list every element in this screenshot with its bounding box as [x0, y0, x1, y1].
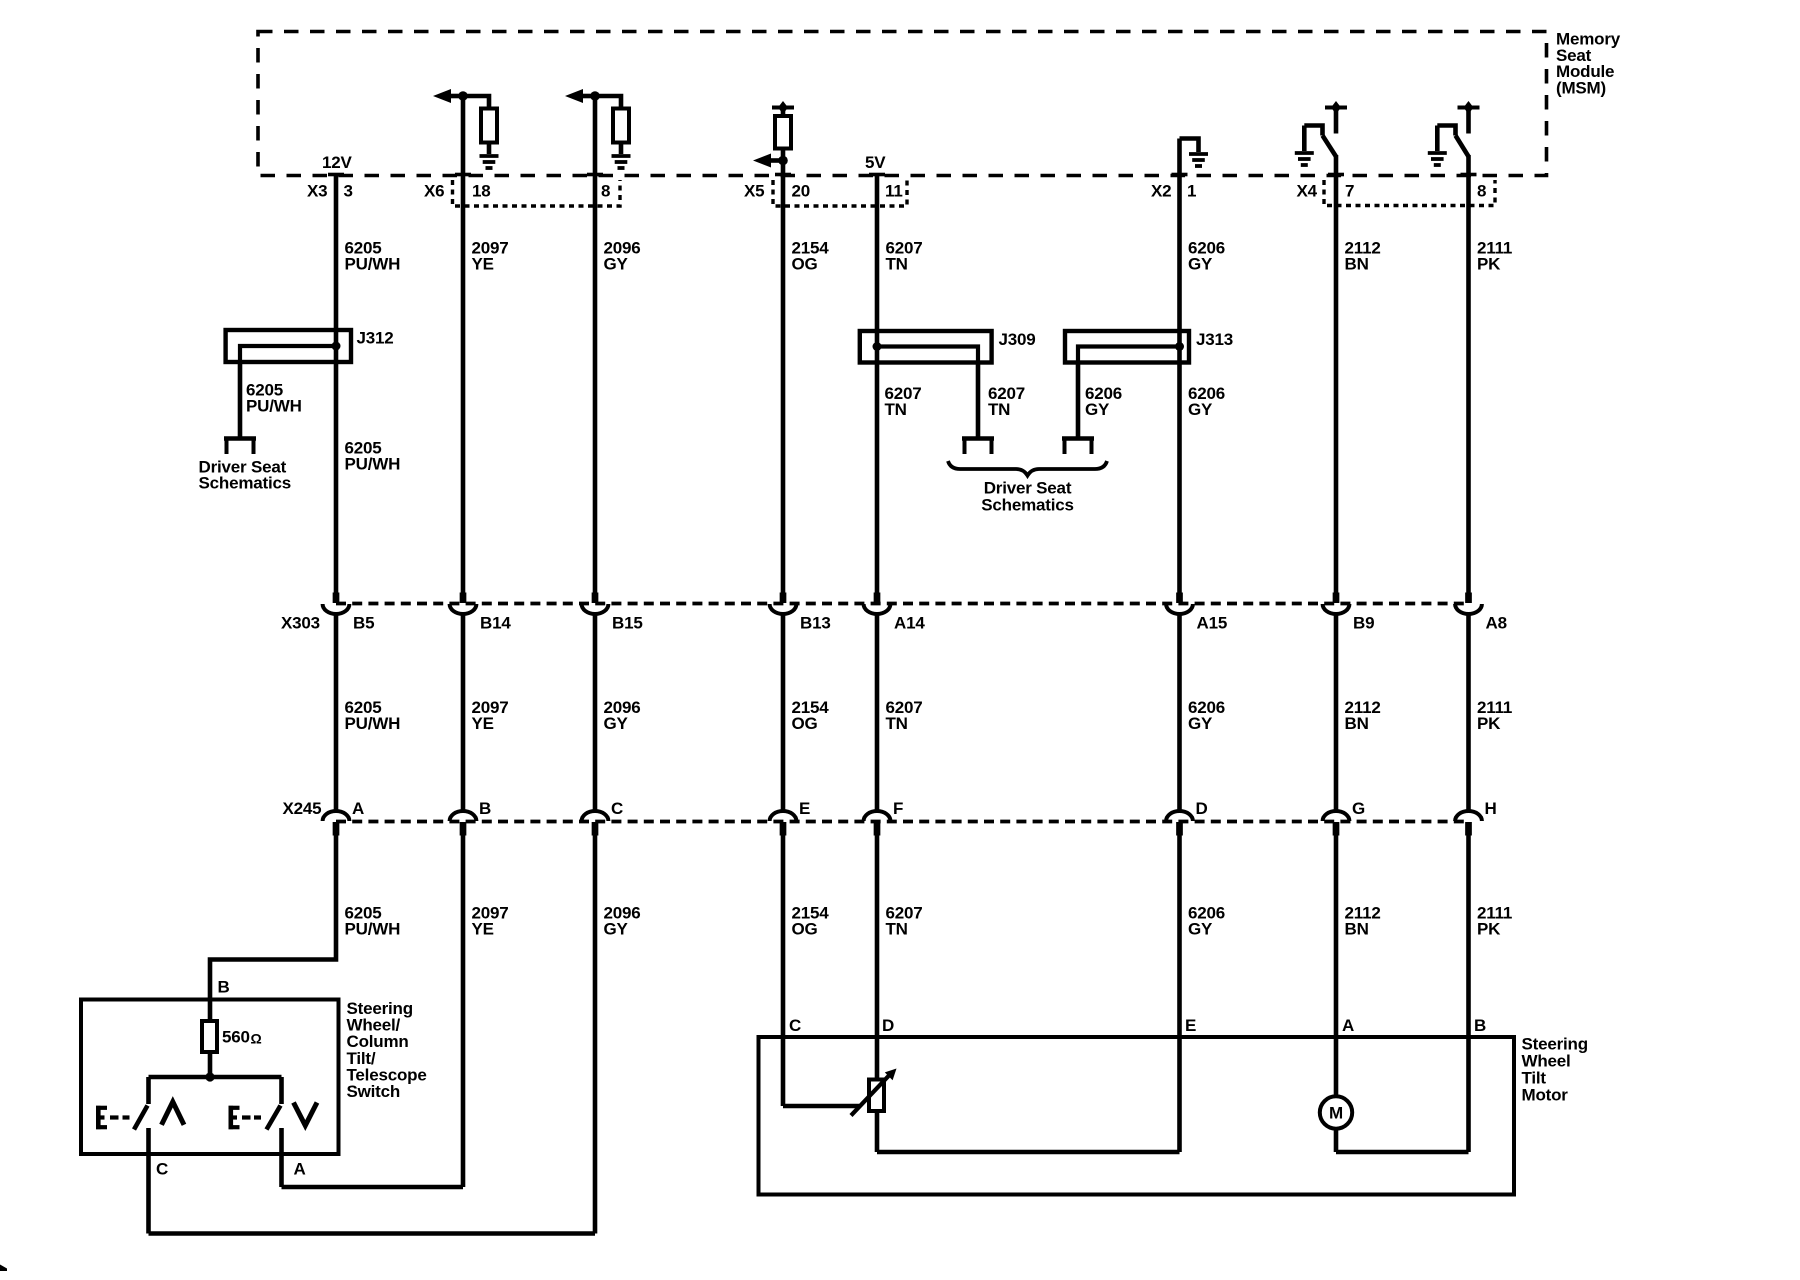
resistor internal (pin 20): [775, 116, 791, 149]
splice J309 internal link: [877, 347, 978, 363]
wire (down switch to pin A): [279, 1128, 284, 1187]
connector X303 terminal A14: [864, 593, 891, 615]
half connector to Driver Seat Schematics (J313): [1062, 439, 1094, 455]
connector X245 terminal C: [582, 811, 609, 836]
switch fixed contact (pin 8): [1437, 126, 1455, 136]
svg-text:E: E: [799, 799, 810, 818]
wire label 6205 PU/WH (branch): [246, 381, 302, 416]
wire 6207 TN (J309 to Driver Seat): [976, 363, 981, 439]
wire label 2154 OG (middle): [792, 698, 830, 733]
actuator E linkage (down switch): [229, 1106, 262, 1129]
connector label X4: [1297, 182, 1318, 201]
svg-text:E: E: [1185, 1016, 1196, 1035]
svg-text:B: B: [218, 978, 230, 997]
switch down-contact stub: [279, 1077, 284, 1104]
wire label 2096 GY (lower): [604, 904, 641, 939]
resistor 560 ohm: [202, 1021, 217, 1052]
pin A14 label: [894, 614, 925, 633]
wire label 2154 OG (lower): [792, 904, 830, 939]
wire 2111 PK (X245-H to motor pin B): [1466, 835, 1471, 1153]
mark (page artifact): [0, 1265, 7, 1272]
Steering Wheel/Column Tilt/Telescope Switch box outline: [81, 1000, 339, 1155]
pin A label (motor): [1342, 1016, 1354, 1035]
wire 6206 GY (X303 to X245): [1177, 616, 1182, 810]
svg-text:12V: 12V: [322, 153, 353, 172]
wire label 6207 TN (upper): [886, 239, 923, 274]
switch blade (pin 7): [1323, 136, 1337, 157]
svg-text:PU/WH: PU/WH: [345, 255, 401, 274]
pin G label: [1352, 799, 1365, 818]
connector label X245: [283, 799, 322, 818]
pin A label: [352, 799, 364, 818]
wire 6206 GY (J313 to Driver Seat): [1076, 363, 1081, 439]
svg-text:C: C: [611, 799, 623, 818]
wire label 2097 YE (upper): [472, 239, 509, 274]
wire label 6207 TN (branch): [988, 384, 1025, 419]
connector X245 terminal H: [1455, 811, 1482, 836]
splice J312 outline: [226, 330, 351, 362]
wire label 2097 YE (middle): [472, 698, 509, 733]
wire 2097 YE (X303 to X245): [461, 616, 466, 810]
svg-text:J313: J313: [1196, 330, 1233, 349]
svg-text:X303: X303: [281, 614, 320, 633]
half connector to Driver Seat Schematics (J312): [224, 439, 256, 455]
wire label 6207 TN (main): [885, 384, 922, 419]
label Driver Seat Schematics (left): [199, 458, 292, 493]
wire label 2111 PK (lower): [1477, 904, 1512, 939]
svg-text:D: D: [882, 1016, 894, 1035]
connector X6 pin box: [453, 180, 621, 206]
label Steering Wheel Tilt Motor: [1522, 1035, 1588, 1105]
wire label 2112 BN (middle): [1345, 698, 1381, 733]
svg-text:PK: PK: [1477, 255, 1501, 274]
svg-text:D: D: [1196, 799, 1208, 818]
down-direction chevron: [294, 1103, 318, 1126]
signal arrow (internal, pin 20): [753, 154, 783, 168]
svg-text:5V: 5V: [865, 153, 886, 172]
pin 20 label: [792, 182, 811, 201]
label Memory Seat Module (MSM): [1556, 30, 1621, 98]
svg-text:Switch: Switch: [347, 1082, 401, 1101]
wire 2111 PK (MSM pin X4-8 to X303): [1461, 155, 1477, 593]
wire 2096 GY (MSM pin X6-8 to X303): [587, 94, 603, 593]
svg-text:BN: BN: [1345, 920, 1369, 939]
splice J312 internal link: [240, 346, 336, 362]
connector X245 terminal B: [450, 811, 477, 836]
wire label 2112 BN (upper): [1345, 239, 1381, 274]
svg-text:GY: GY: [1188, 920, 1213, 939]
svg-text:B9: B9: [1353, 614, 1374, 633]
potentiometer wiper arrow: [851, 1069, 897, 1116]
wire (motor to bottom rail): [1334, 1129, 1339, 1152]
svg-text:A8: A8: [1486, 614, 1507, 633]
wire internal branch (pin 18): [463, 96, 489, 109]
motor M: [1320, 1096, 1352, 1128]
svg-text:11: 11: [885, 182, 903, 201]
svg-text:X245: X245: [283, 799, 322, 818]
switch blade (pin 8): [1456, 136, 1469, 157]
svg-text:BN: BN: [1345, 714, 1369, 733]
connector label X6: [424, 182, 444, 201]
connector X303 terminal B5: [323, 593, 350, 615]
connector label X303: [281, 614, 320, 633]
wire bottom rail (pot to pin E): [877, 1150, 1180, 1155]
connector X245 terminal D: [1166, 811, 1193, 836]
reference up arrow (pin 7): [1325, 101, 1347, 134]
svg-text:BN: BN: [1345, 255, 1369, 274]
connector X303 terminal B13: [770, 593, 797, 615]
wire wiper (pin C to potentiometer): [783, 1104, 859, 1109]
actuator E linkage (up switch): [96, 1106, 130, 1129]
connector X303 dashed line: [336, 602, 1469, 606]
svg-text:TN: TN: [886, 714, 908, 733]
ground (internal, pin 1): [1189, 154, 1208, 166]
ground (internal, switch pin 7): [1295, 126, 1314, 166]
pin B15 label: [612, 614, 643, 633]
wire 2097 YE (MSM pin X6-18 to X303): [455, 94, 471, 593]
Memory Seat Module (MSM) dashed outline: [258, 32, 1547, 176]
svg-text:A: A: [294, 1160, 306, 1179]
resistor internal pull-up (pin 8): [613, 109, 629, 143]
wire 2154 OG (X245-E to motor pin C): [781, 835, 786, 1107]
connector X5 pin box: [773, 180, 907, 206]
svg-text:PU/WH: PU/WH: [345, 714, 401, 733]
svg-text:H: H: [1485, 799, 1497, 818]
svg-text:OG: OG: [792, 920, 818, 939]
label 12V supply: [322, 153, 353, 172]
node junction J313: [1175, 342, 1184, 351]
ground (internal, pin 8): [612, 156, 631, 168]
resistor internal pull-up (pin 18): [481, 109, 497, 143]
wire (pot to bottom rail): [875, 1111, 880, 1152]
svg-text:X3: X3: [307, 182, 327, 201]
node junction (pin 8 net): [590, 91, 600, 101]
pin 8 label: [1477, 182, 1486, 201]
svg-text:GY: GY: [1085, 400, 1110, 419]
svg-text:X5: X5: [744, 182, 764, 201]
svg-text:(MSM): (MSM): [1556, 78, 1606, 97]
pin B label (motor): [1474, 1016, 1486, 1035]
svg-text:X2: X2: [1151, 182, 1171, 201]
wire 2096 GY (X303 to X245): [593, 616, 598, 810]
wire 2097 YE (X245-B down): [461, 835, 466, 1188]
wire 6206 GY (MSM pin X2-1 to X303): [1172, 139, 1188, 593]
reference up arrow (pin 8): [1458, 101, 1480, 134]
label 560 ohm: [222, 1028, 262, 1047]
pin C label (motor): [789, 1016, 801, 1035]
svg-text:PK: PK: [1477, 920, 1501, 939]
svg-text:PU/WH: PU/WH: [246, 397, 302, 416]
svg-text:TN: TN: [886, 920, 908, 939]
wire 6206 GY (X245-D to motor pin E): [1177, 835, 1182, 1153]
svg-text:C: C: [789, 1016, 801, 1035]
wire 2111 PK (X303 to X245): [1466, 616, 1471, 810]
svg-text:C: C: [156, 1160, 168, 1179]
wire (560 ohm to junction): [208, 1052, 213, 1077]
connector label X2: [1151, 182, 1171, 201]
svg-text:Schematics: Schematics: [981, 496, 1074, 515]
wire label 6206 GY (middle): [1188, 698, 1225, 733]
wire 6205 PU/WH (J312 to Driver Seat): [238, 362, 243, 439]
pin D label (motor): [882, 1016, 894, 1035]
wire (resistor to ground): [619, 143, 624, 155]
wire label 2097 YE (lower): [472, 904, 509, 939]
wire label 2111 PK (upper): [1477, 239, 1512, 274]
label Steering Wheel/Column Tilt/Telescope Switch: [347, 999, 427, 1101]
pin C label: [611, 799, 623, 818]
svg-text:PU/WH: PU/WH: [345, 455, 401, 474]
svg-text:X6: X6: [424, 182, 444, 201]
wire label 6207 TN (middle): [886, 698, 923, 733]
wire label 2112 BN (lower): [1345, 904, 1381, 939]
wire 2096 GY (X245-C down): [593, 835, 598, 1234]
pin 8 label: [601, 182, 610, 201]
svg-text:7: 7: [1345, 182, 1354, 201]
svg-text:YE: YE: [472, 255, 494, 274]
svg-text:1: 1: [1187, 182, 1196, 201]
pin 18 label: [472, 182, 491, 201]
pin B14 label: [480, 614, 511, 633]
svg-text:3: 3: [344, 182, 353, 201]
switch blade (up): [134, 1106, 148, 1130]
connector X303 terminal A15: [1166, 593, 1193, 615]
wire label 6205 PU/WH (main below J312): [345, 439, 401, 474]
svg-text:J309: J309: [999, 330, 1036, 349]
connector X303 terminal B9: [1323, 593, 1350, 615]
wire 6205 PU/WH (MSM pin X3-3 to X303): [328, 175, 344, 593]
wire (up switch to pin C): [146, 1128, 151, 1234]
pin 1 label: [1187, 182, 1196, 201]
svg-text:GY: GY: [604, 920, 629, 939]
wire internal hook (pin 1): [1180, 139, 1199, 153]
label Driver Seat Schematics (center): [981, 479, 1074, 515]
svg-text:G: G: [1352, 799, 1365, 818]
connector X245 terminal F: [864, 811, 891, 836]
svg-text:B5: B5: [353, 614, 374, 633]
svg-text:A: A: [352, 799, 364, 818]
switch fixed contact (pin 7): [1304, 126, 1322, 136]
wire 6207 TN (MSM pin X5-11 to X303): [869, 175, 885, 593]
pin B label (switch): [218, 978, 230, 997]
wire 6207 TN (X245-F to pot pin D): [875, 835, 880, 1080]
pin C label (switch): [156, 1160, 168, 1179]
svg-text:Schematics: Schematics: [199, 474, 292, 493]
node junction (switch common): [205, 1072, 214, 1081]
svg-text:J312: J312: [357, 329, 394, 348]
connector X303 terminal B15: [582, 593, 609, 615]
wire 2112 BN (X245-G to motor pin A): [1334, 835, 1339, 1097]
wire internal branch (pin 8): [595, 96, 621, 109]
svg-text:Motor: Motor: [1522, 1086, 1569, 1105]
wire 6207 TN (X303 to X245): [875, 616, 880, 810]
splice J313 outline: [1065, 331, 1189, 363]
signal arrow (internal, pin 8): [565, 89, 595, 103]
wire (resistor to ground): [487, 143, 492, 155]
ground (internal, switch pin 8): [1428, 126, 1447, 166]
svg-text:Ω: Ω: [251, 1031, 262, 1047]
wire 2154 OG (MSM pin X5-20 to X303): [775, 149, 791, 593]
node junction J309: [873, 342, 882, 351]
brace (J309/J313 branches to Driver Seat Schematics): [948, 461, 1107, 476]
svg-text:20: 20: [792, 182, 811, 201]
pin 7 label: [1345, 182, 1354, 201]
pin B5 label: [353, 614, 374, 633]
wire label 6206 GY (lower): [1188, 904, 1225, 939]
svg-text:A15: A15: [1197, 614, 1228, 633]
wire bottom rail (motor to pin B): [1336, 1150, 1469, 1155]
label J309: [999, 330, 1036, 349]
label J313: [1196, 330, 1233, 349]
node junction J312: [332, 342, 341, 351]
svg-text:GY: GY: [1188, 255, 1213, 274]
switch blade (down): [267, 1106, 281, 1130]
svg-text:B: B: [1474, 1016, 1486, 1035]
svg-text:TN: TN: [886, 255, 908, 274]
connector X4 pin box: [1324, 180, 1495, 206]
splice J313 internal link: [1078, 347, 1180, 363]
svg-text:B15: B15: [612, 614, 643, 633]
pin B9 label: [1353, 614, 1374, 633]
wire label 6206 GY (upper): [1188, 239, 1225, 274]
up-direction chevron: [162, 1102, 185, 1125]
wire label 6207 TN (lower): [886, 904, 923, 939]
svg-text:GY: GY: [604, 255, 629, 274]
wire label 6205 PU/WH (middle): [345, 698, 401, 733]
label J312: [357, 329, 394, 348]
svg-text:YE: YE: [472, 920, 494, 939]
svg-text:OG: OG: [792, 714, 818, 733]
wire label 2096 GY (middle): [604, 698, 641, 733]
switch up-contact stub: [146, 1077, 151, 1104]
svg-text:A14: A14: [894, 614, 925, 633]
potentiometer position sensor: [869, 1080, 884, 1112]
half connector to Driver Seat Schematics (J309): [962, 439, 994, 455]
reference arrow (internal 5V, pin 20): [772, 101, 794, 116]
pin H label: [1485, 799, 1497, 818]
pin E label (motor): [1185, 1016, 1196, 1035]
wire label 2096 GY (upper): [604, 239, 641, 274]
wire label 6205 PU/WH (lower): [345, 904, 401, 939]
pin 11 label: [885, 182, 903, 201]
node junction (pin 20 net): [778, 156, 788, 166]
connector label X3: [307, 182, 327, 201]
svg-text:GY: GY: [604, 714, 629, 733]
svg-text:OG: OG: [792, 255, 818, 274]
connector X245 dashed line: [336, 820, 1469, 824]
svg-text:B13: B13: [800, 614, 831, 633]
svg-text:M: M: [1329, 1104, 1343, 1123]
svg-text:TN: TN: [988, 400, 1010, 419]
wire label 6206 GY (main): [1188, 384, 1225, 419]
pin 3 label: [344, 182, 353, 201]
connector X303 terminal B14: [450, 593, 477, 615]
wire 2112 BN (X303 to X245): [1334, 616, 1339, 810]
wire 6205 PU/WH (X303 to X245): [334, 616, 339, 810]
pin E label: [799, 799, 810, 818]
connector label X5: [744, 182, 764, 201]
pin A15 label: [1197, 614, 1228, 633]
Steering Wheel Tilt Motor box outline: [759, 1037, 1515, 1195]
pin A8 label: [1486, 614, 1507, 633]
svg-text:GY: GY: [1188, 400, 1213, 419]
wire switch common branch: [149, 1075, 282, 1080]
svg-text:B: B: [479, 799, 491, 818]
svg-text:YE: YE: [472, 714, 494, 733]
wire label 6205 PU/WH (upper): [345, 239, 401, 274]
svg-text:X4: X4: [1297, 182, 1318, 201]
svg-text:GY: GY: [1188, 714, 1213, 733]
wire label 2154 OG (upper): [792, 239, 830, 274]
pin B label: [479, 799, 491, 818]
svg-text:PK: PK: [1477, 714, 1501, 733]
svg-text:PU/WH: PU/WH: [345, 920, 401, 939]
pin F label: [893, 799, 903, 818]
wire (switch pin A to X245-B): [282, 1185, 464, 1190]
wire label 6206 GY (branch): [1085, 384, 1122, 419]
signal arrow (internal, pin 18): [433, 89, 463, 103]
svg-text:B14: B14: [480, 614, 511, 633]
pin A label (switch): [294, 1160, 306, 1179]
connector X245 terminal G: [1323, 811, 1350, 836]
ground (internal, pin 18): [480, 156, 499, 168]
svg-text:560: 560: [222, 1028, 250, 1047]
wire label 2111 PK (middle): [1477, 698, 1512, 733]
svg-text:18: 18: [472, 182, 491, 201]
pin D label: [1196, 799, 1208, 818]
connector X245 terminal A: [323, 811, 350, 836]
svg-text:TN: TN: [885, 400, 907, 419]
splice J309 outline: [860, 331, 992, 363]
connector X303 terminal A8: [1455, 593, 1482, 615]
svg-text:8: 8: [1477, 182, 1486, 201]
svg-text:A: A: [1342, 1016, 1354, 1035]
svg-text:8: 8: [601, 182, 610, 201]
node junction (pin 18 net): [458, 91, 468, 101]
wire 6205 PU/WH (X245-A to switch pin B): [210, 835, 336, 1022]
pin B13 label: [800, 614, 831, 633]
wire 2112 BN (MSM pin X4-7 to X303): [1328, 155, 1344, 593]
wire (switch pin C to X245-C): [149, 1231, 596, 1236]
connector X245 terminal E: [770, 811, 797, 836]
label 5V supply: [865, 153, 886, 172]
wire 2154 OG (X303 to X245): [781, 616, 786, 810]
svg-text:F: F: [893, 799, 903, 818]
